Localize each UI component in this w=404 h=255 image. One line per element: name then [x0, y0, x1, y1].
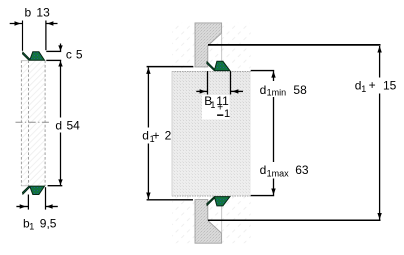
- dimension d1min/d1max : vertical line upper: [273, 71, 275, 81]
- svg-text:1min: 1min: [267, 88, 287, 98]
- block left edge: [171, 71, 173, 196]
- dimension d1+2 : bottom leader: [147, 199, 193, 201]
- dimension B1 : left extension line: [207, 71, 209, 94]
- seal body bottom edge stub: [21, 185, 29, 187]
- dimension d1min/d1max : vertical line middle: [273, 97, 275, 162]
- dimension b : left arrowhead: [15, 21, 21, 25]
- housing block: [172, 71, 251, 196]
- dimension d1+15 : upper arrowhead: [377, 46, 381, 53]
- svg-text:15: 15: [383, 79, 397, 93]
- dimension d1+15 : bottom leader: [208, 219, 381, 221]
- dimension d1+15 : lower arrowhead: [377, 213, 381, 220]
- dimension d : bottom arrowhead: [58, 179, 62, 185]
- block top edge: [172, 71, 251, 73]
- dimension c : upper arrowhead: [58, 45, 62, 51]
- counterface wall, top segment: [195, 23, 222, 67]
- label d1 + 15: [352, 78, 399, 94]
- counterface wall, bottom segment: [195, 200, 222, 244]
- dimension b1 : dimension line right tail: [46, 206, 58, 208]
- hidden edge line top: [221, 33, 223, 61]
- dimension d1+2 : vertical line lower: [147, 144, 149, 200]
- dimension b1 : left arrowhead: [20, 204, 26, 208]
- svg-text:1max: 1max: [267, 169, 290, 179]
- svg-text:54: 54: [67, 118, 81, 132]
- seal body inner line: [28, 60, 30, 186]
- svg-text:63: 63: [295, 163, 309, 177]
- dimension B1 : dimension line left tail: [196, 90, 207, 92]
- hidden edge line bottom: [221, 206, 223, 233]
- seal body top edge stub: [21, 60, 29, 62]
- dimension c : top leader: [46, 50, 61, 52]
- svg-text:1: 1: [29, 222, 34, 232]
- block bottom edge: [172, 195, 251, 197]
- dimension d : bottom leader: [48, 185, 63, 187]
- dimension B1 : right extension line: [230, 71, 232, 94]
- svg-text:+: +: [369, 78, 376, 92]
- bottom seal lip (green): [23, 186, 45, 194]
- dimension d1min : top leader: [251, 70, 275, 72]
- dimension d1min/d1max : vertical line lower: [273, 179, 275, 196]
- svg-text:d: d: [260, 163, 267, 177]
- dimension b : dimension line right tail: [46, 23, 58, 25]
- svg-text:c: c: [66, 48, 72, 62]
- centerline: [16, 121, 50, 123]
- seal body left edge: [20, 60, 22, 186]
- dimension c : bottom leader: [46, 59, 61, 61]
- dimension d1+15 : vertical line upper: [379, 46, 381, 78]
- seal body rect (hatched): [21, 60, 45, 186]
- dimension d : line lower part: [60, 133, 62, 186]
- top seal lip (green): [23, 52, 45, 60]
- dimension b1 : right arrowhead: [46, 204, 52, 208]
- dimension d1+2 : lower arrowhead: [146, 193, 150, 200]
- svg-text:d: d: [142, 129, 149, 143]
- dimension B1 : left arrowhead: [200, 89, 206, 93]
- dimension b : dimension line left tail: [10, 23, 23, 25]
- svg-text:58: 58: [293, 83, 307, 97]
- svg-text:b: b: [25, 6, 32, 20]
- dimension b : right arrowhead: [47, 21, 53, 25]
- svg-text:d: d: [55, 118, 62, 132]
- dimension B1 : right arrowhead: [232, 89, 238, 93]
- dimension d1+15 : top leader: [208, 44, 381, 46]
- dimension c : upper arrow stem: [60, 44, 62, 52]
- label d1min 58: [257, 82, 309, 98]
- label d1+ 2: [139, 128, 172, 144]
- dimension d1+2 : vertical line upper: [147, 67, 149, 127]
- svg-text:+: +: [217, 102, 223, 113]
- svg-text:9,5: 9,5: [40, 216, 57, 230]
- dimension d1min : upper arrowhead: [271, 71, 275, 78]
- dimension d : line upper part: [60, 61, 62, 118]
- label B1 11 +1/-1: [202, 95, 230, 120]
- svg-text:2: 2: [165, 129, 172, 143]
- dimension b1 : right extension line: [45, 187, 47, 209]
- dimension d1max : bottom leader: [251, 195, 275, 197]
- bottom seal (green): [207, 197, 230, 206]
- faint surrounding hatch (right view): [172, 23, 251, 243]
- dimension d1+15 : vertical line lower: [379, 94, 381, 220]
- seal body right edge: [44, 60, 46, 186]
- svg-text:5: 5: [76, 48, 83, 62]
- top seal (green): [207, 61, 230, 70]
- label d1max 63: [257, 162, 311, 178]
- dimension b1 : dimension line left tail: [16, 206, 28, 208]
- svg-text:1: 1: [361, 84, 366, 94]
- dimension B1 : dimension line right tail: [231, 90, 244, 92]
- svg-text:1: 1: [210, 100, 215, 110]
- svg-text:+: +: [153, 129, 160, 143]
- svg-text:13: 13: [36, 6, 50, 20]
- dimension b : left extension line: [22, 21, 24, 51]
- dimension b : right extension line: [45, 21, 47, 51]
- svg-text:d: d: [260, 83, 267, 97]
- svg-text:1: 1: [224, 108, 230, 120]
- dimension d1+2 : upper arrowhead: [146, 67, 150, 74]
- dimension d1max : lower arrowhead: [271, 189, 275, 196]
- dimension c : lower arrowhead: [58, 61, 62, 67]
- dimension d1+2 : top leader: [147, 66, 194, 68]
- dimension b1 : left extension line: [27, 195, 29, 210]
